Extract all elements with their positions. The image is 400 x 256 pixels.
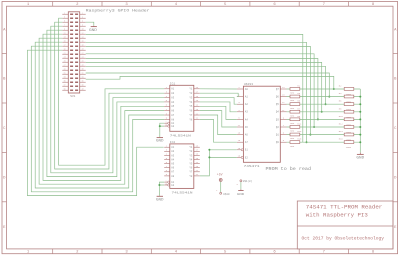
svg-text:B: B [3, 78, 6, 82]
svg-text:U$1S3: U$1S3 [244, 82, 253, 86]
ground GND5 [237, 189, 245, 196]
svg-text:R5: R5 [297, 100, 300, 103]
svg-text:Q2: Q2 [276, 126, 279, 129]
resistor R15 50K [290, 138, 302, 148]
svg-text:Y7: Y7 [189, 114, 192, 117]
resistor R10 100K [339, 115, 354, 127]
ground GND3 under IC2 [156, 196, 164, 201]
svg-text:Raspberry3 GPIO Header: Raspberry3 GPIO Header [86, 8, 150, 13]
wire PROM GND pin to ground [240, 182, 242, 189]
svg-text:50K: 50K [290, 107, 295, 110]
svg-text:E2: E2 [245, 156, 248, 159]
svg-text:Y1: Y1 [189, 146, 192, 149]
svg-text:40: 40 [81, 89, 83, 91]
svg-text:50K: 50K [290, 130, 295, 133]
svg-text:GND: GND [356, 155, 364, 159]
svg-text:33: 33 [63, 77, 65, 79]
svg-text:A7: A7 [171, 171, 174, 174]
svg-text:Y6: Y6 [189, 167, 192, 170]
svg-text:G2: G2 [171, 125, 174, 128]
svg-text:A1: A1 [171, 88, 174, 91]
junction [159, 125, 161, 127]
svg-text:GND: GND [89, 28, 97, 32]
svg-text:21: 21 [63, 53, 65, 55]
svg-text:Y8: Y8 [189, 118, 192, 121]
svg-text:17: 17 [238, 124, 241, 127]
svg-text:25: 25 [63, 61, 65, 63]
resistor R9 50K [290, 115, 301, 125]
svg-text:74LS541N: 74LS541N [170, 134, 191, 137]
svg-text:B: B [394, 78, 397, 82]
svg-text:8: 8 [82, 25, 83, 27]
resistor R16 100K [339, 138, 354, 150]
svg-text:29: 29 [63, 69, 65, 71]
connector SV1 Raspberry Pi GPIO header [62, 12, 85, 98]
svg-text:Y5: Y5 [189, 163, 192, 166]
svg-text:A4: A4 [171, 101, 174, 104]
svg-text:C: C [3, 127, 6, 131]
supply +5V [217, 172, 223, 181]
svg-text:U$10: U$10 [223, 192, 230, 196]
svg-text:6: 6 [283, 132, 285, 135]
wire [47, 30, 164, 176]
svg-text:24: 24 [81, 57, 83, 59]
wire [86, 73, 330, 97]
ground GND4 under rail [356, 153, 364, 160]
svg-text:A6: A6 [245, 134, 248, 137]
IC U$1 74S471 PROM [237, 82, 287, 168]
IC U2 74LS541N buffer IC2 [164, 141, 200, 195]
junction [208, 156, 210, 158]
svg-text:50K: 50K [290, 145, 295, 148]
svg-text:18: 18 [81, 45, 83, 47]
wire [287, 96, 361, 98]
svg-text:7: 7 [64, 25, 65, 27]
svg-text:5: 5 [238, 116, 240, 119]
wire [55, 22, 165, 169]
svg-text:A5: A5 [171, 105, 174, 108]
svg-text:R7: R7 [297, 107, 300, 110]
svg-text:A7: A7 [245, 141, 248, 144]
svg-text:Q4: Q4 [276, 111, 279, 114]
resistor R14 100K [339, 130, 354, 142]
junction [158, 184, 160, 186]
resistor R3 50K [290, 92, 301, 102]
svg-text:A3: A3 [245, 111, 248, 114]
wire [86, 34, 303, 142]
wire [287, 126, 361, 128]
wire [200, 115, 237, 135]
svg-text:R14: R14 [339, 130, 344, 133]
junction [359, 126, 361, 128]
svg-text:14: 14 [81, 37, 83, 39]
svg-text:U$1(8): U$1(8) [243, 179, 253, 183]
resistor R8 100K [339, 107, 354, 119]
junction [333, 88, 335, 90]
svg-text:A: A [3, 28, 6, 32]
svg-text:12: 12 [282, 101, 285, 104]
junction [359, 118, 361, 120]
svg-text:with Raspberry PI3: with Raspberry PI3 [306, 212, 368, 219]
junction [359, 111, 361, 113]
wire GPIO pin6 to GND [86, 22, 94, 26]
wire [86, 62, 322, 111]
svg-text:3: 3 [64, 17, 65, 19]
wire [86, 54, 314, 127]
svg-text:A3: A3 [171, 96, 174, 99]
svg-text:R9: R9 [297, 115, 300, 118]
svg-text:20: 20 [81, 49, 83, 51]
svg-text:6: 6 [82, 21, 83, 23]
svg-text:R2: R2 [339, 85, 342, 88]
svg-text:38: 38 [81, 85, 83, 87]
svg-text:D: D [3, 177, 6, 181]
svg-text:A6: A6 [171, 110, 174, 113]
svg-text:50K: 50K [290, 122, 295, 125]
svg-text:35: 35 [63, 81, 65, 83]
svg-text:Y2: Y2 [189, 92, 192, 95]
wire [200, 98, 237, 105]
svg-text:26: 26 [81, 61, 83, 63]
wire [200, 102, 237, 112]
svg-text:A5: A5 [245, 126, 248, 129]
svg-text:50K: 50K [290, 92, 295, 95]
svg-text:A8: A8 [171, 118, 174, 121]
wire [287, 118, 361, 120]
svg-text:37: 37 [63, 85, 65, 87]
wire [287, 88, 361, 90]
wire +5V to PROM VCC pin [220, 182, 222, 193]
resistor R5 50K [290, 100, 301, 110]
svg-text:100K: 100K [346, 123, 352, 126]
svg-text:R15: R15 [297, 138, 302, 141]
svg-text:100K: 100K [346, 131, 352, 134]
svg-text:A4: A4 [171, 158, 174, 161]
svg-text:11: 11 [63, 33, 65, 35]
svg-text:G2: G2 [171, 184, 174, 187]
svg-text:SV1: SV1 [70, 95, 75, 98]
junction [306, 141, 308, 143]
svg-text:IC1: IC1 [170, 82, 176, 85]
wire [43, 34, 164, 180]
svg-text:Y3: Y3 [189, 154, 192, 157]
svg-text:2: 2 [82, 13, 83, 15]
svg-text:4: 4 [238, 109, 240, 112]
svg-text:1: 1 [238, 86, 240, 89]
svg-text:A3: A3 [171, 154, 174, 157]
svg-text:30: 30 [81, 69, 83, 71]
svg-text:17: 17 [63, 45, 65, 47]
svg-text:R6: R6 [339, 100, 342, 103]
svg-text:9: 9 [64, 29, 65, 31]
wire [200, 111, 237, 127]
svg-text:A1: A1 [245, 96, 248, 99]
svg-text:Y4: Y4 [189, 101, 192, 104]
junction [359, 96, 361, 98]
junction [328, 96, 330, 98]
svg-text:E1: E1 [245, 149, 248, 152]
svg-text:19: 19 [63, 49, 65, 51]
svg-text:Oct 2017 by Obsoletetechnology: Oct 2017 by Obsoletetechnology [302, 235, 385, 241]
svg-text:Y7: Y7 [189, 171, 192, 174]
svg-text:3: 3 [238, 101, 240, 104]
svg-text:R12: R12 [339, 123, 344, 126]
svg-text:16: 16 [81, 41, 83, 43]
svg-text:+5V: +5V [217, 172, 223, 176]
svg-text:13: 13 [282, 94, 285, 97]
svg-text:Y2: Y2 [189, 150, 192, 153]
svg-text:C: C [394, 127, 397, 131]
junction [325, 103, 327, 105]
svg-text:28: 28 [81, 65, 83, 67]
svg-text:IC2: IC2 [170, 141, 176, 144]
svg-text:A4: A4 [245, 118, 248, 121]
svg-text:16: 16 [238, 154, 241, 157]
svg-text:A2: A2 [171, 92, 174, 95]
junction [208, 149, 210, 151]
svg-text:A: A [394, 28, 397, 32]
svg-text:E: E [3, 226, 6, 230]
junction [321, 111, 323, 113]
svg-text:50K: 50K [290, 137, 295, 140]
svg-text:A8: A8 [171, 175, 174, 178]
junction [359, 134, 361, 136]
svg-text:Y4: Y4 [189, 158, 192, 161]
svg-text:31: 31 [63, 73, 65, 75]
title block [297, 201, 393, 249]
svg-text:74S471: 74S471 [244, 165, 260, 168]
svg-text:1: 1 [216, 189, 218, 192]
svg-text:100K: 100K [346, 101, 352, 104]
wire IC2 enables to ground [159, 182, 164, 196]
svg-text:19: 19 [238, 139, 241, 142]
wire [39, 38, 164, 184]
svg-text:2: 2 [238, 94, 240, 97]
pin U$1 GND open pin [237, 179, 253, 186]
svg-text:7: 7 [283, 124, 285, 127]
svg-text:PROM to be read: PROM to be read [266, 167, 312, 172]
svg-text:Y1: Y1 [189, 88, 192, 91]
wire IC1 Y1 to PROM A0 [200, 88, 237, 90]
svg-text:5: 5 [64, 21, 65, 23]
svg-text:Y6: Y6 [189, 110, 192, 113]
wire [86, 76, 334, 89]
junction [359, 141, 361, 143]
svg-text:15: 15 [63, 41, 65, 43]
svg-text:36: 36 [81, 81, 83, 83]
wire [200, 106, 237, 119]
junction [359, 103, 361, 105]
svg-text:74S471 TTL-PROM Reader: 74S471 TTL-PROM Reader [306, 204, 383, 211]
wire [86, 59, 318, 120]
svg-text:14: 14 [282, 86, 285, 89]
svg-text:22: 22 [81, 53, 83, 55]
svg-text:R1: R1 [297, 85, 300, 88]
svg-text:74LS541N: 74LS541N [172, 192, 193, 195]
svg-text:100K: 100K [346, 93, 352, 96]
svg-text:R13: R13 [297, 130, 302, 133]
svg-text:27: 27 [63, 65, 65, 67]
svg-text:Y5: Y5 [189, 105, 192, 108]
wire [31, 46, 164, 192]
wire [287, 134, 361, 136]
svg-text:23: 23 [63, 57, 65, 59]
junction [309, 134, 311, 136]
svg-text:Q0: Q0 [276, 141, 279, 144]
svg-text:GND: GND [237, 193, 245, 196]
svg-text:Q3: Q3 [276, 118, 279, 121]
svg-text:R11: R11 [297, 123, 302, 126]
svg-text:Q6: Q6 [276, 96, 279, 99]
resistor R1 50K [290, 85, 301, 95]
svg-text:Y3: Y3 [189, 96, 192, 99]
svg-text:A6: A6 [171, 167, 174, 170]
svg-text:13: 13 [63, 37, 65, 39]
ground GND2 under IC1 [156, 138, 164, 143]
svg-text:100K: 100K [346, 139, 352, 142]
svg-text:18: 18 [238, 132, 241, 135]
svg-text:4: 4 [82, 17, 83, 19]
ground GND1 [89, 26, 97, 32]
svg-text:GND: GND [156, 138, 164, 142]
svg-text:100K: 100K [346, 146, 352, 149]
svg-text:R8: R8 [339, 107, 342, 110]
svg-text:A7: A7 [171, 114, 174, 117]
resistor R6 100K [339, 100, 354, 112]
wire IC1 Y8 to PROM A7 [200, 119, 237, 142]
svg-text:11: 11 [282, 109, 285, 112]
wire [86, 46, 311, 134]
svg-text:Q7: Q7 [276, 88, 279, 91]
svg-text:34: 34 [81, 77, 83, 79]
svg-text:39: 39 [63, 89, 65, 91]
svg-text:A0: A0 [245, 88, 248, 91]
svg-text:Q1: Q1 [276, 134, 279, 137]
svg-text:A2: A2 [171, 150, 174, 153]
svg-text:9: 9 [283, 116, 285, 119]
svg-text:50K: 50K [290, 114, 295, 117]
svg-text:10: 10 [81, 29, 83, 31]
svg-text:R16: R16 [339, 138, 344, 141]
svg-text:32: 32 [81, 73, 83, 75]
IC U1 74LS541N buffer IC1 [164, 82, 200, 137]
wire [86, 66, 326, 104]
svg-text:12: 12 [81, 33, 83, 35]
svg-text:A2: A2 [245, 103, 248, 106]
wire [287, 111, 361, 113]
wire [86, 42, 307, 142]
svg-text:D: D [394, 177, 397, 181]
junction [313, 126, 315, 128]
wire IC1 enables to ground [160, 123, 164, 137]
svg-text:100K: 100K [346, 108, 352, 111]
wire [59, 18, 165, 165]
svg-text:8: 8 [237, 183, 239, 186]
resistor R7 50K [290, 107, 301, 117]
svg-text:5: 5 [283, 139, 285, 142]
svg-text:Q5: Q5 [276, 103, 279, 106]
wire [27, 50, 163, 195]
svg-text:R3: R3 [297, 92, 300, 95]
resistor R4 100K [339, 92, 354, 104]
wire [287, 103, 361, 105]
wire [287, 141, 361, 143]
junction [317, 118, 319, 120]
wire pulldown rail [359, 89, 361, 153]
svg-text:R4: R4 [339, 92, 342, 95]
svg-text:GND: GND [156, 197, 164, 201]
svg-text:E: E [394, 226, 397, 230]
resistor R13 50K [290, 130, 302, 140]
resistor R2 100K [339, 85, 354, 97]
svg-text:15: 15 [238, 147, 241, 150]
svg-text:R10: R10 [339, 115, 344, 118]
pin U$10 VCC open pin [216, 189, 230, 196]
wire [35, 42, 164, 188]
svg-text:100K: 100K [346, 116, 352, 119]
svg-text:A1: A1 [171, 146, 174, 149]
svg-text:A5: A5 [171, 163, 174, 166]
svg-text:50K: 50K [290, 99, 295, 102]
resistor R11 50K [290, 123, 302, 133]
svg-text:Y8: Y8 [189, 175, 192, 178]
wire IC2 Y8 to PROM E1 E2 [200, 150, 237, 176]
wire [200, 93, 238, 96]
resistor R12 100K [339, 123, 354, 135]
svg-text:1: 1 [64, 13, 65, 15]
wire [51, 26, 164, 173]
